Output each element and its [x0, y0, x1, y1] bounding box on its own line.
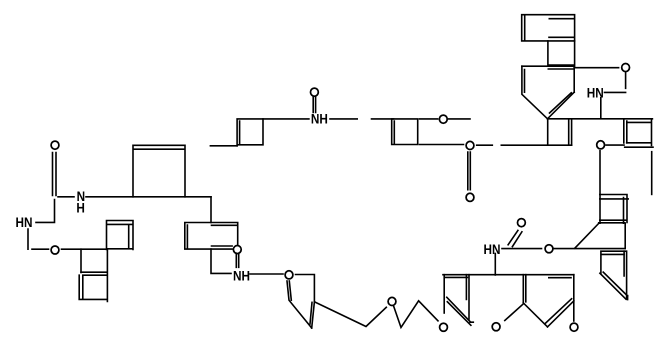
svg-text:HN: HN: [484, 241, 501, 257]
svg-text:H: H: [76, 200, 85, 216]
svg-text:HN: HN: [16, 214, 33, 230]
svg-text:NH: NH: [311, 111, 328, 127]
svg-text:NH: NH: [233, 267, 250, 283]
svg-text:HN: HN: [587, 85, 604, 101]
